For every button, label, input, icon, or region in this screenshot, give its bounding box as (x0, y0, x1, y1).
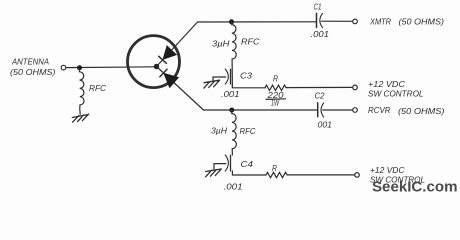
wire C4 to ground (214, 164, 226, 169)
wire C3 corner to R1 (232, 84, 265, 88)
wire C1 to XMTR terminal (322, 20, 353, 22)
ground G2 (204, 80, 220, 88)
terminal XMTR (353, 19, 358, 24)
wire diagonal to XMTR rail (157, 22, 198, 67)
svg-text:C3: C3 (240, 71, 252, 81)
label RCVR (50 OHMS) (368, 105, 445, 116)
svg-text:3µH: 3µH (211, 125, 228, 135)
capacitor C1 (317, 13, 323, 27)
svg-text:R: R (273, 74, 278, 84)
label +12 VDC / SW CONTROL (top) (368, 79, 424, 98)
diode D1 (159, 46, 176, 63)
diode D2 (160, 69, 178, 87)
wire antenna terminal to center node (66, 66, 157, 69)
node XMTR rail / RFC2 (229, 19, 234, 24)
svg-text:XMTR: XMTR (369, 16, 391, 26)
svg-text:(50 OHMS): (50 OHMS) (10, 67, 56, 77)
inductor RFC2 3uH (232, 22, 237, 88)
svg-text:001: 001 (318, 120, 333, 130)
node RCVR rail / RFC3 (229, 108, 234, 113)
svg-text:(50 OHMS): (50 OHMS) (398, 106, 445, 116)
resistor R1 (265, 85, 286, 90)
inductor RFC3 3uH (232, 110, 237, 155)
terminal RCVR (353, 108, 358, 113)
wire RCVR rail (204, 109, 317, 111)
svg-text:3µH: 3µH (212, 39, 230, 49)
svg-text:RFC: RFC (240, 126, 257, 136)
svg-text:C4: C4 (241, 159, 254, 169)
svg-text:.001: .001 (311, 29, 330, 39)
ground G3 (206, 169, 222, 177)
terminal antenna (61, 65, 66, 70)
svg-text:SeekIC.com: SeekIC.com (372, 178, 458, 195)
svg-text:C2: C2 (315, 90, 325, 100)
node antenna/RFC1 junction (77, 65, 82, 70)
capacitor C3 (225, 69, 230, 84)
svg-text:.001: .001 (221, 89, 240, 99)
wire R1 to +12 terminal (286, 86, 353, 88)
underline 220 (266, 98, 286, 101)
resistor R2 (266, 172, 287, 177)
capacitor C2 (318, 103, 324, 117)
label +12 VDC / SW CONTROL (bottom) (370, 165, 425, 184)
wire C3 to ground (213, 77, 226, 81)
svg-text:C1: C1 (314, 2, 322, 12)
wire R2 to +12 terminal (287, 174, 355, 176)
inductor RFC1 (80, 68, 85, 114)
terminal +12 VDC bottom (355, 173, 360, 178)
svg-text:RFC: RFC (89, 83, 107, 93)
svg-text:R: R (272, 163, 277, 173)
label ANTENNA (50 OHMS) (10, 57, 56, 78)
node center junction (154, 64, 159, 69)
wire XMTR rail (198, 21, 317, 23)
wire C4 corner to R2 (232, 171, 266, 175)
svg-text:.001: .001 (224, 182, 243, 192)
wire diagonal to RCVR rail (157, 67, 204, 111)
terminal +12 VDC top (353, 85, 358, 90)
diode package U1 circle (128, 36, 180, 88)
svg-text:RCVR: RCVR (368, 105, 391, 115)
capacitor C4 (225, 155, 230, 171)
svg-text:(50 OHMS): (50 OHMS) (399, 17, 445, 27)
label XMTR (50 OHMS) (369, 16, 444, 26)
svg-text:SW CONTROL: SW CONTROL (368, 89, 424, 99)
svg-text:1W: 1W (271, 97, 280, 107)
svg-text:ANTENNA: ANTENNA (11, 57, 49, 67)
svg-text:RFC: RFC (241, 37, 260, 47)
ground G1 (72, 114, 88, 122)
wire C2 to RCVR terminal (323, 109, 353, 111)
